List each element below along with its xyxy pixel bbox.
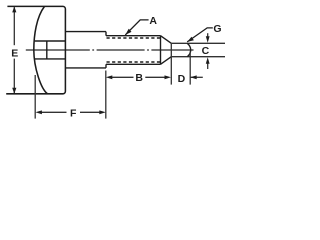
- F left extension line: [34, 75, 36, 119]
- svg-text:D: D: [178, 73, 186, 85]
- tip dome end: [187, 43, 190, 56]
- F dimension line: [41, 111, 100, 113]
- hub top line: [35, 40, 66, 42]
- thread end face: [160, 36, 162, 65]
- svg-text:G: G: [213, 23, 221, 35]
- svg-text:C: C: [202, 45, 210, 57]
- svg-text:B: B: [135, 72, 143, 84]
- thread crest top: [106, 35, 161, 37]
- shank top line: [65, 31, 106, 33]
- C top arrow: [207, 33, 209, 38]
- F right arrowhead: [99, 110, 106, 114]
- C bottom arrow: [207, 62, 209, 69]
- svg-text:A: A: [149, 15, 157, 27]
- D right arrow: [191, 76, 203, 78]
- B left arrowhead: [106, 75, 113, 79]
- hub front edge: [46, 41, 48, 59]
- thread crest bottom: [106, 63, 161, 65]
- head outline (with E extension lines merged): [6, 6, 65, 93]
- centerline: [26, 49, 194, 51]
- F right extension line shared with B left: [105, 71, 107, 119]
- thread runout step top: [105, 32, 107, 36]
- thread root dashed bottom: [107, 61, 161, 63]
- thread root dashed top: [107, 37, 161, 39]
- B dimension line: [111, 76, 165, 78]
- E dimension line bottom arrow: [12, 88, 16, 94]
- hub bottom line: [35, 58, 66, 60]
- svg-text:F: F: [70, 108, 77, 120]
- tip top edge with C top extension line: [171, 42, 225, 44]
- G leader line: [187, 28, 213, 42]
- tip bottom edge with C bottom extension line: [171, 56, 225, 58]
- G leader arrowhead: [187, 37, 194, 42]
- A leader arrowhead: [125, 29, 131, 35]
- E dimension line top arrow: [13, 7, 15, 93]
- head left curve: [34, 6, 48, 93]
- svg-text:E: E: [11, 47, 18, 59]
- tip junction edge plus D left extension line: [170, 43, 172, 84]
- thread runout step bottom: [105, 64, 107, 68]
- A leader line: [125, 20, 148, 35]
- D right extension line: [189, 52, 191, 85]
- B right arrowhead: [165, 75, 172, 79]
- shank bottom line: [65, 67, 106, 69]
- F left arrowhead: [35, 110, 42, 114]
- chamfer cone bottom: [161, 57, 172, 65]
- chamfer cone top: [161, 36, 172, 44]
